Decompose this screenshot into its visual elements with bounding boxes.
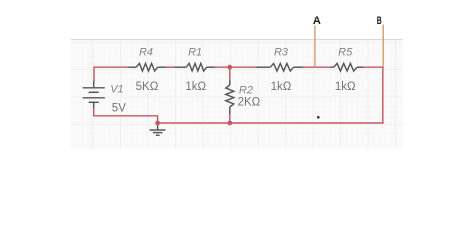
svg-text:B: B (377, 15, 382, 27)
resistor R2 (vertical) (226, 80, 234, 114)
svg-text:1kΩ: 1kΩ (185, 81, 206, 93)
svg-text:R4: R4 (139, 47, 153, 59)
resistor R4 (128, 63, 166, 71)
svg-text:5V: 5V (112, 103, 126, 115)
wire: right vertical rail (382, 66, 384, 123)
svg-text:2KΩ: 2KΩ (238, 97, 261, 109)
battery V1 (83, 81, 105, 108)
svg-text:1kΩ: 1kΩ (335, 81, 356, 93)
resistor R3 (256, 63, 303, 71)
wire: R4 to R1 (166, 66, 175, 68)
wire: R3 to R5 (crosses node A) (303, 66, 332, 68)
stray dot (317, 116, 320, 119)
schematic grid canvas (71, 39, 403, 150)
wire: bottom rail (158, 122, 384, 124)
wire: node to R2 top (229, 67, 231, 81)
svg-text:1kΩ: 1kΩ (271, 81, 292, 93)
resistor R5 (331, 63, 364, 71)
svg-text:R1: R1 (188, 47, 202, 59)
junction node at ground (155, 121, 160, 126)
svg-text:R5: R5 (338, 47, 353, 59)
svg-text:A: A (313, 15, 321, 27)
svg-text:5KΩ: 5KΩ (136, 81, 159, 93)
wire: R5 to top-right corner (363, 66, 384, 68)
wire: R2 bottom to bottom rail (229, 114, 231, 123)
junction node at R2 top (227, 65, 232, 70)
probe line B (382, 25, 384, 67)
ground (150, 124, 166, 135)
wire: battery negative to ground junction (94, 108, 158, 124)
svg-text:R3: R3 (274, 47, 289, 59)
wire: R1 to node and node to R3 (215, 66, 257, 68)
svg-text:V1: V1 (110, 83, 123, 95)
wire: top rail left segment (battery to R4) (94, 67, 129, 81)
junction node at R2 bottom (227, 121, 232, 126)
resistor R1 (175, 63, 216, 71)
svg-text:R2: R2 (239, 85, 253, 97)
probe line A (314, 26, 316, 68)
